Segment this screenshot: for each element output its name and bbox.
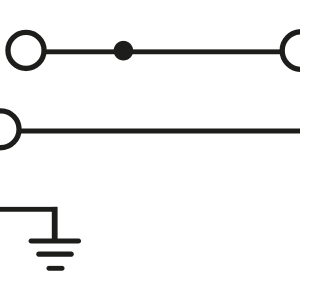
terminal circle X2 (top right, clipped at right edge) [282, 32, 320, 70]
wire (ground branch horizontal) [0, 207, 57, 212]
terminal circle X1 (top left) [8, 32, 44, 68]
wire (middle conductor) [21, 129, 300, 134]
wire (top conductor) [46, 49, 281, 54]
terminal circle X3 (middle left, clipped at left edge) [0, 111, 19, 148]
wire (ground branch vertical stem) [52, 207, 58, 240]
ground symbol [31, 241, 78, 268]
junction node (filled dot) [114, 41, 134, 61]
